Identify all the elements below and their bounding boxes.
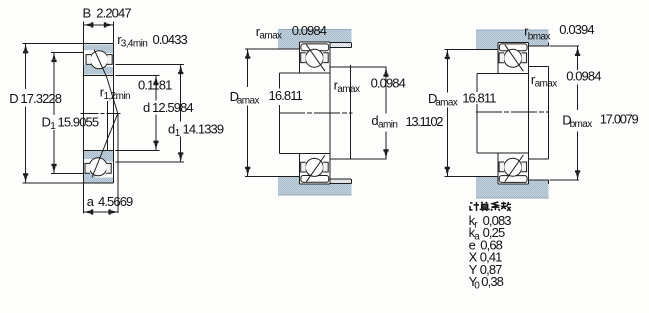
svg-text:14.1339: 14.1339 [183, 122, 224, 137]
svg-text:amin: amin [378, 119, 397, 130]
svg-text:D: D [42, 115, 51, 130]
svg-text:amax: amax [237, 95, 260, 106]
svg-text:B: B [83, 6, 91, 21]
svg-text:13.1102: 13.1102 [406, 114, 444, 129]
svg-text:d 12.5984: d 12.5984 [143, 100, 193, 115]
svg-text:0.0984: 0.0984 [566, 68, 601, 83]
svg-text:bmax: bmax [570, 119, 593, 130]
svg-text:15.9055: 15.9055 [58, 115, 99, 130]
svg-text:0.0433: 0.0433 [153, 32, 188, 47]
svg-text:amax: amax [435, 97, 458, 108]
svg-text:bmax: bmax [528, 32, 551, 43]
svg-text:2.2047: 2.2047 [96, 6, 131, 21]
svg-text:0,38: 0,38 [481, 274, 503, 289]
svg-text:16.811: 16.811 [269, 88, 303, 103]
svg-text:amax: amax [259, 31, 282, 42]
svg-text:4.5669: 4.5669 [98, 194, 133, 209]
svg-text:3,4min: 3,4min [121, 39, 147, 50]
svg-text:17.0079: 17.0079 [600, 112, 639, 127]
svg-text:0.0984: 0.0984 [371, 76, 406, 91]
svg-text:0.0394: 0.0394 [559, 22, 594, 37]
svg-text:0.0984: 0.0984 [292, 23, 327, 38]
svg-text:amax: amax [337, 84, 360, 95]
svg-text:1,2min: 1,2min [104, 91, 130, 102]
svg-text:0.1181: 0.1181 [138, 78, 172, 93]
svg-text:16.811: 16.811 [462, 90, 496, 105]
svg-text:amax: amax [535, 79, 558, 90]
